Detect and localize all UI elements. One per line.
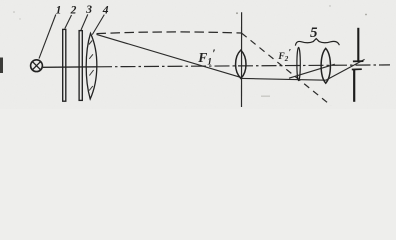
eyepiece field lens (thin) xyxy=(297,47,300,80)
leader line 2 xyxy=(65,15,72,29)
faint scan specks xyxy=(13,11,15,13)
condenser lens 4 xyxy=(86,33,97,99)
eyepiece eye lens (large) xyxy=(321,48,330,83)
ray through slit to eye xyxy=(326,59,365,80)
lamp (source) 1 xyxy=(31,60,43,72)
dashed refracted ray through F2' xyxy=(242,33,331,105)
ray from field lens rising xyxy=(289,64,335,78)
lens 4 hatching xyxy=(89,41,94,91)
slit screen lower jaw xyxy=(352,68,362,70)
svg-text:4: 4 xyxy=(102,4,109,16)
leader line 4 xyxy=(92,15,104,35)
slit screen upper jaw xyxy=(357,28,359,62)
objective lens plane (vertical line) xyxy=(241,12,243,107)
filter plate 2 xyxy=(63,29,66,101)
dashed parallel ray (top, from lens 4 to lens plane) xyxy=(97,32,242,34)
objective lens xyxy=(236,50,246,78)
leader line 3 xyxy=(81,14,88,30)
svg-text:3: 3 xyxy=(85,4,92,16)
scan mark left edge xyxy=(0,58,3,74)
paper background xyxy=(0,0,396,109)
leader line 1 xyxy=(39,15,56,59)
svg-text:1: 1 xyxy=(56,4,62,16)
brace for assembly 5 xyxy=(295,39,339,46)
svg-text:2: 2 xyxy=(70,4,77,16)
optical axis (solid from lamp, dash-dot across) xyxy=(43,66,97,69)
ray exiting objective (horizontal, below axis) xyxy=(242,78,326,80)
solid ray from lens 4 top through F1' xyxy=(97,34,242,77)
filter plate 3 xyxy=(79,31,82,101)
